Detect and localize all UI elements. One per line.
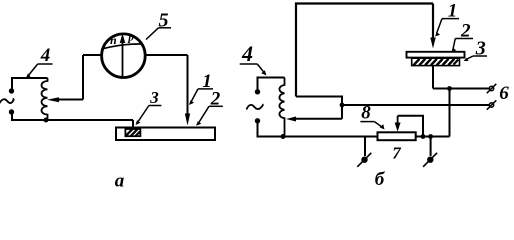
coil 4 terminal dot lower — [9, 109, 14, 114]
coil 4b left stub bottom — [257, 121, 259, 138]
big loop left side — [296, 4, 433, 97]
label 1b leader arrowhead — [435, 32, 440, 37]
svg-text:4: 4 — [40, 45, 51, 66]
pad 3 hatched — [125, 129, 140, 136]
junction dot coil 4b bottom — [281, 134, 286, 139]
junction dot above potentiometer branch — [447, 86, 452, 91]
potentiometer 7 body — [378, 132, 416, 140]
right bottom terminal circle — [427, 157, 433, 163]
svg-text:3: 3 — [149, 88, 159, 107]
wire probe vertical — [187, 55, 189, 118]
wire vertical left of meter — [82, 55, 84, 100]
junction dot on jog — [340, 103, 345, 108]
label 3 leader — [138, 106, 149, 123]
bottom wire left of potentiometer — [258, 136, 378, 138]
label 4b leader arrowhead — [261, 70, 266, 75]
coil 4 left terminal stub bottom — [11, 112, 13, 121]
coil 4 winding (4 bumps) — [41, 78, 47, 120]
coil 4b terminal dot upper — [255, 89, 260, 94]
label 8 leader arrowhead — [380, 124, 385, 129]
junction dot coil bottom — [44, 118, 49, 123]
svg-text:п: п — [110, 33, 117, 47]
tap arrowhead into coil b — [286, 117, 296, 122]
label 2b shelf — [455, 38, 473, 40]
wiper stem — [397, 116, 399, 124]
label 4 leader — [28, 64, 38, 77]
label 1 leader arrowhead — [189, 100, 194, 105]
label 4b shelf — [240, 63, 258, 65]
svg-text:6: 6 — [499, 83, 509, 104]
label 1 shelf — [198, 88, 213, 90]
right bottom terminal slash — [423, 153, 437, 167]
wiper arrowhead — [395, 123, 401, 132]
coil 4b top wire — [258, 77, 285, 79]
big loop right side down to plate — [432, 4, 434, 41]
label 3b leader — [466, 56, 473, 60]
tap wire b — [295, 118, 342, 120]
label 4 leader arrowhead — [26, 74, 31, 80]
svg-text:б: б — [375, 169, 386, 190]
svg-text:8: 8 — [361, 103, 371, 124]
coil 4b left stub top — [257, 77, 259, 91]
label 3 shelf — [149, 105, 162, 107]
AC source tilde symbol — [0, 99, 14, 104]
label 2 leader arrowhead — [196, 121, 201, 126]
plate 2b body — [407, 52, 465, 58]
coil 4 top wire — [12, 77, 48, 79]
strip 3b hatched — [412, 58, 460, 65]
label 3b leader arrowhead — [464, 58, 469, 61]
wire coil bottom to plate — [11, 119, 133, 121]
label 5 leader — [146, 28, 159, 40]
label 2 shelf — [209, 105, 223, 107]
left bottom terminal stem — [364, 137, 366, 157]
lower terminal 6 circle — [489, 103, 493, 107]
meter 5 circle — [102, 34, 146, 78]
wire down to potentiometer — [449, 89, 451, 137]
label 3b shelf — [473, 55, 487, 57]
coil 4 terminal dot upper — [9, 88, 14, 93]
wire drop into pad 3 — [132, 120, 134, 128]
label 1 leader — [191, 89, 198, 102]
probe arrowhead onto plate b — [430, 38, 435, 49]
junction dot wiper loop — [421, 134, 426, 139]
label 2b leader arrowhead — [452, 48, 457, 52]
lower terminal 6 slash — [487, 100, 497, 109]
loop bottom jog — [296, 97, 342, 119]
label 5 shelf — [159, 27, 172, 29]
tap arrowhead into coil — [47, 97, 59, 102]
wire to meter left — [83, 54, 102, 56]
label 2b leader — [453, 39, 455, 50]
label 4 shelf — [38, 63, 53, 65]
label 4b leader — [257, 64, 264, 73]
meter needle — [122, 43, 124, 77]
label 8 leader — [374, 122, 382, 127]
probe arrowhead onto plate — [185, 114, 190, 126]
label 8 shelf — [360, 121, 374, 123]
junction dot right terminal stem — [428, 134, 433, 139]
meter scale arc — [103, 44, 143, 49]
label 3 leader arrowhead — [136, 120, 141, 125]
left bottom terminal circle — [361, 157, 367, 163]
svg-text:р: р — [127, 31, 134, 43]
upper terminal 6 slash — [487, 84, 497, 93]
tap wire from meter — [56, 99, 83, 101]
coil 4b winding — [279, 78, 284, 137]
svg-text:а: а — [115, 171, 125, 192]
wire to lower terminal 6 — [342, 104, 489, 106]
label 1b shelf — [442, 18, 459, 20]
label 1b leader — [437, 19, 443, 34]
svg-text:4: 4 — [241, 41, 253, 66]
AC tilde symbol b — [247, 104, 263, 109]
upper terminal 6 circle — [489, 86, 493, 90]
label 2 leader — [199, 106, 210, 123]
left bottom terminal slash — [357, 153, 371, 167]
wire meter right — [145, 54, 188, 56]
wiper loop wire — [398, 116, 423, 137]
coil 4 left terminal stub top — [11, 77, 13, 89]
meter needle arrowhead — [120, 34, 126, 44]
wire strip to terminal row — [432, 66, 434, 89]
plate 2 body — [116, 128, 215, 141]
bottom wire right of potentiometer — [416, 136, 450, 138]
wire to upper terminal 6 — [433, 88, 489, 90]
right bottom terminal stem — [430, 137, 432, 157]
coil 4b terminal dot lower — [255, 118, 260, 123]
